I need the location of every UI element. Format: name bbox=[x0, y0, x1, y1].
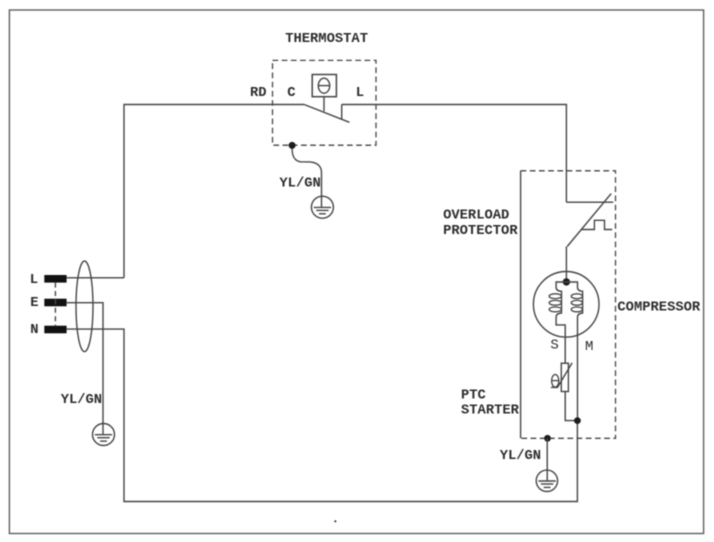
wire: pin N to bottom run bbox=[67, 329, 578, 501]
overload protector blade bbox=[567, 194, 611, 247]
PTC theta symbol bbox=[552, 375, 559, 388]
wire: shell earth drop bbox=[546, 438, 548, 470]
PTC thermistor R1 body bbox=[561, 363, 568, 391]
motor shell circle bbox=[533, 272, 599, 338]
start winding S bbox=[556, 282, 566, 363]
pin L bbox=[44, 275, 66, 283]
node: thermostat earth junction bbox=[289, 142, 296, 149]
svg-text:PTC: PTC bbox=[461, 388, 486, 403]
overload protector heater step bbox=[582, 220, 613, 229]
plug ellipse bbox=[76, 261, 93, 352]
sensor stem bbox=[323, 97, 325, 112]
switch L contact bbox=[341, 105, 343, 120]
node: winding common junction bbox=[563, 278, 570, 285]
wire: thermostat L to compressor (top right run) bbox=[342, 105, 567, 203]
svg-text:COMPRESSOR: COMPRESSOR bbox=[617, 301, 701, 316]
compressor enclosure: dashed top, right, bottom bbox=[521, 171, 616, 439]
wire: overload to motor bbox=[565, 247, 567, 282]
node: compressor shell earth junction bbox=[544, 435, 551, 442]
svg-text:RD: RD bbox=[250, 86, 267, 101]
svg-text:M: M bbox=[585, 339, 593, 355]
node: PTC / main winding junction bbox=[574, 417, 581, 424]
svg-text:C: C bbox=[287, 86, 295, 101]
compressor enclosure: solid left edge bbox=[520, 171, 522, 439]
earth symbol (plug) bbox=[93, 424, 115, 446]
thermostat sensor box bbox=[312, 75, 336, 97]
svg-text:N: N bbox=[30, 323, 38, 338]
dashed link between pins bbox=[54, 283, 56, 326]
svg-text:L: L bbox=[30, 273, 38, 288]
svg-text:YL/GN: YL/GN bbox=[279, 176, 320, 192]
svg-text:L: L bbox=[356, 86, 364, 101]
svg-text:PROTECTOR: PROTECTOR bbox=[443, 224, 518, 239]
svg-text:STARTER: STARTER bbox=[461, 404, 520, 419]
pin E bbox=[44, 299, 66, 307]
wire: pin E to earth drop bbox=[67, 303, 103, 424]
wire: PTC bottom to node bbox=[565, 392, 577, 421]
main winding M bbox=[566, 282, 582, 421]
overload protector contact bbox=[566, 201, 613, 203]
thermostat enclosure (dashed box) bbox=[273, 60, 377, 145]
earth symbol (thermostat) bbox=[311, 196, 333, 218]
earth symbol (compressor) bbox=[536, 470, 557, 491]
thermostat theta symbol bbox=[318, 78, 329, 93]
stray period mark bbox=[334, 520, 336, 522]
wire: curved earth lead from thermostat bbox=[292, 149, 321, 197]
svg-text:E: E bbox=[30, 296, 38, 311]
switch blade C to L bbox=[304, 105, 349, 123]
wire: pin L to riser bbox=[67, 277, 124, 279]
svg-text:S: S bbox=[550, 338, 558, 354]
svg-text:YL/GN: YL/GN bbox=[61, 392, 102, 408]
svg-text:THERMOSTAT: THERMOSTAT bbox=[285, 32, 368, 47]
wire: top left run from plug L to thermostat C bbox=[124, 105, 304, 278]
PTC thermistor diagonal bbox=[551, 363, 572, 388]
svg-text:OVERLOAD: OVERLOAD bbox=[443, 209, 509, 224]
svg-text:YL/GN: YL/GN bbox=[500, 448, 541, 464]
pin N bbox=[44, 326, 66, 334]
